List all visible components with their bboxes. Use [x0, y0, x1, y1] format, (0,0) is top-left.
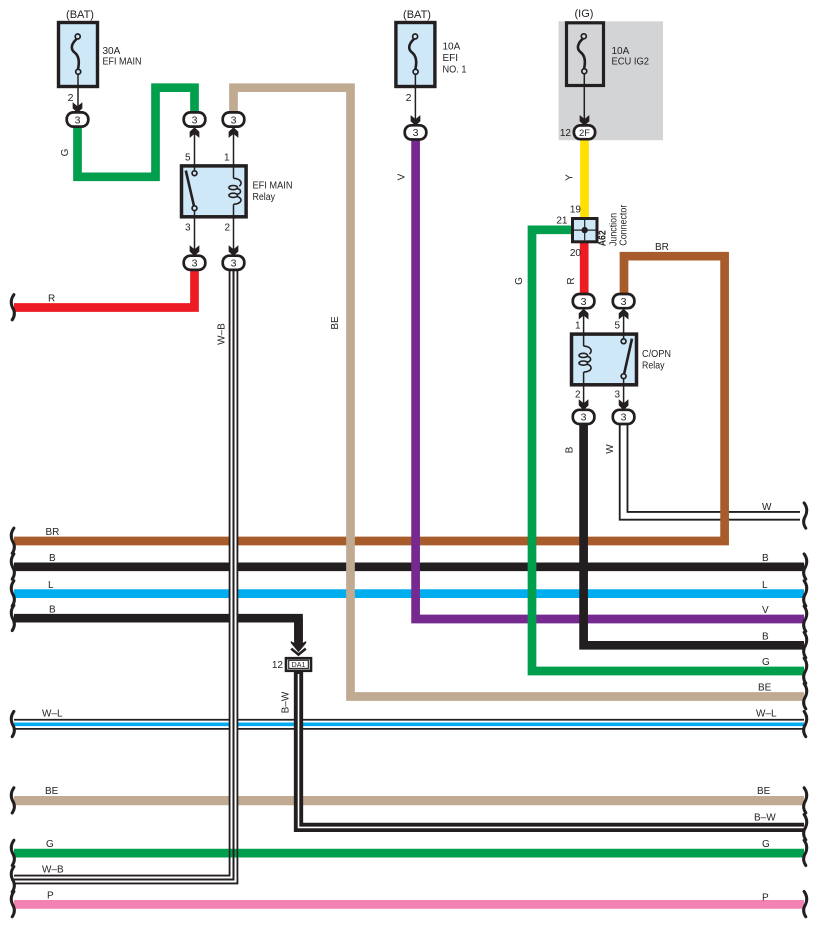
continuation squiggle left L [11, 581, 14, 606]
node oval 3 at C/OPN relay pin 2 [573, 410, 595, 424]
wire B-W (black with white stripe) from DA1 down then right to edge [299, 672, 805, 827]
continuation squiggle left W-B [11, 867, 14, 892]
svg-text:W–B: W–B [217, 323, 228, 345]
continuation squiggle right B1 [804, 554, 807, 579]
svg-text:(BAT): (BAT) [66, 9, 94, 21]
svg-text:V: V [397, 173, 408, 180]
C/OPN pin 5 lead and arrow up into oval [623, 315, 625, 334]
svg-text:P: P [762, 893, 769, 904]
C/OPN pin 1 lead and arrow up into oval [583, 315, 585, 334]
fuse 10A ECU IG2 (IG) [560, 8, 650, 139]
svg-text:1: 1 [224, 153, 230, 164]
svg-text:5: 5 [185, 153, 191, 164]
svg-text:B: B [49, 605, 56, 616]
svg-text:EFI: EFI [443, 53, 459, 64]
svg-text:ECU IG2: ECU IG2 [612, 57, 650, 68]
svg-text:3: 3 [621, 296, 627, 308]
svg-text:3: 3 [231, 258, 237, 270]
svg-text:3: 3 [614, 390, 620, 401]
svg-text:2: 2 [224, 223, 230, 234]
svg-text:3: 3 [231, 114, 237, 126]
wire R (red) from EFI MAIN relay pin 3 oval down then left to edge [14, 270, 195, 308]
wire W-B outline lines redrawn over G bus 2 [14, 270, 237, 884]
svg-text:P: P [47, 891, 54, 902]
svg-text:NO. 1: NO. 1 [443, 65, 467, 76]
continuation squiggle left R [11, 295, 14, 320]
svg-text:3: 3 [192, 114, 198, 126]
svg-text:G: G [762, 657, 770, 668]
continuation squiggle left BE2 [11, 788, 14, 813]
node oval 3 at EFI MAIN relay pin 2 [223, 256, 245, 270]
svg-text:BR: BR [655, 242, 669, 253]
pin 5 lead and arrow up into oval [194, 134, 196, 165]
svg-text:G: G [762, 839, 770, 850]
svg-text:R: R [566, 277, 577, 284]
svg-text:EFI MAIN: EFI MAIN [253, 181, 293, 192]
svg-text:30A: 30A [103, 46, 121, 57]
svg-text:G: G [46, 839, 54, 850]
continuation squiggle right B-W [804, 815, 807, 840]
svg-text:Relay: Relay [253, 192, 276, 203]
C/OPN pin 3 lead and arrow down into oval [623, 386, 625, 403]
svg-text:(IG): (IG) [575, 8, 594, 20]
wire P bus (pink, full width) [14, 900, 804, 909]
wire Y (yellow) from 2F oval to A62 pin 19 [580, 139, 589, 218]
continuation squiggle right L [804, 581, 807, 606]
svg-text:B–W: B–W [281, 691, 292, 713]
svg-text:3: 3 [621, 412, 627, 424]
wire B bus 1 (black, full width) [14, 562, 804, 571]
svg-text:BE: BE [45, 786, 59, 797]
svg-text:W–B: W–B [42, 865, 64, 876]
connector DA1 [272, 618, 311, 671]
svg-text:DA1: DA1 [292, 660, 306, 669]
svg-text:12: 12 [272, 660, 284, 671]
continuation squiggle left B1 [11, 554, 14, 579]
svg-text:B: B [762, 553, 769, 564]
svg-text:10A: 10A [612, 46, 630, 57]
svg-text:L: L [48, 580, 54, 591]
svg-text:V: V [762, 605, 769, 616]
wire BE (tan) from EFI MAIN relay pin 1 oval up, right, down, right to edge [234, 88, 805, 697]
svg-text:B: B [565, 446, 576, 453]
svg-text:B: B [762, 632, 769, 643]
svg-text:3: 3 [413, 127, 419, 139]
wire G (green) from 30A EFI MAIN fuse oval to EFI MAIN relay pin 5 oval [78, 88, 195, 177]
C/OPN relay U2 [572, 321, 672, 401]
svg-text:B–W: B–W [754, 813, 776, 824]
svg-text:BE: BE [757, 786, 771, 797]
continuation squiggle right W [804, 503, 807, 528]
continuation squiggle right W-L [804, 711, 807, 736]
arrow into oval 3 below fuse 30A [73, 102, 83, 113]
continuation squiggle right V [804, 606, 807, 631]
continuation squiggle right G [804, 658, 807, 683]
svg-text:3: 3 [185, 223, 191, 234]
svg-text:G: G [514, 277, 525, 285]
svg-text:B: B [49, 553, 56, 564]
continuation squiggle left P [11, 892, 14, 917]
svg-text:W–L: W–L [756, 709, 777, 720]
svg-text:1: 1 [575, 321, 581, 332]
wire L bus (blue, full width) [14, 589, 804, 598]
continuation squiggle left BR [11, 528, 14, 553]
continuation squiggle left W-L [11, 711, 14, 736]
wire G (green) from A62 pin 21 left, down, right to edge [532, 230, 804, 671]
pin 3 lead and arrow down into oval [194, 218, 196, 249]
svg-text:Y: Y [565, 174, 576, 181]
wire BE bus 2 (tan, full width) [14, 796, 804, 805]
svg-text:3: 3 [192, 258, 198, 270]
node oval 3 at C/OPN relay pin 5 [613, 294, 635, 308]
wire BR bus (brown) from left edge up to C/OPN relay pin 5 [14, 256, 725, 541]
svg-text:3: 3 [75, 114, 81, 126]
wire B bus 3 (black) from C/OPN relay pin 2 down then right to edge [584, 424, 804, 646]
svg-text:2F: 2F [579, 128, 590, 139]
continuation squiggle right G2 [804, 840, 807, 865]
wire W-L bus (white with blue stripe, full width) [14, 719, 804, 730]
svg-text:10A: 10A [443, 42, 461, 53]
node oval 3 below 30A fuse [67, 112, 89, 126]
fuse 10A EFI NO.1 (BAT) [396, 9, 467, 119]
node oval 3 at EFI MAIN relay pin 1 [223, 112, 245, 126]
junction connector A62 [556, 204, 629, 259]
svg-text:19: 19 [570, 205, 582, 216]
wire R (red) from A62 pin 20 to C/OPN relay pin 1 oval [580, 243, 589, 296]
svg-text:C/OPN: C/OPN [642, 349, 671, 360]
C/OPN pin 2 lead and arrow down into oval [583, 386, 585, 403]
continuation squiggle right B3 [804, 632, 807, 657]
svg-text:G: G [60, 148, 71, 156]
continuation squiggle right BE2 [804, 788, 807, 813]
svg-text:5: 5 [614, 321, 620, 332]
svg-text:W–L: W–L [42, 709, 63, 720]
svg-text:W: W [605, 444, 616, 454]
continuation squiggle right BE [804, 684, 807, 709]
svg-text:2: 2 [406, 92, 412, 104]
node oval 2F below ECU IG2 fuse [574, 125, 595, 139]
wire B bus 2 (black, left, turns down into DA1) [14, 618, 299, 641]
continuation squiggle left G2 [11, 840, 14, 865]
svg-text:Connector: Connector [619, 204, 630, 246]
node oval 3 at C/OPN relay pin 1 [573, 294, 595, 308]
svg-text:L: L [762, 580, 768, 591]
svg-text:EFI MAIN: EFI MAIN [103, 57, 142, 68]
svg-text:BE: BE [758, 683, 772, 694]
svg-text:Relay: Relay [642, 361, 665, 372]
svg-text:BR: BR [46, 527, 60, 538]
svg-text:BE: BE [330, 316, 341, 330]
arrow into oval 2F [580, 115, 590, 126]
wire W-B (white with black stripe) from EFI MAIN relay pin 2 oval down then left to edge [14, 268, 234, 880]
svg-text:3: 3 [581, 412, 587, 424]
svg-text:3: 3 [581, 296, 587, 308]
fuse 30A EFI MAIN (BAT) [59, 9, 142, 107]
svg-text:R: R [48, 294, 55, 305]
wire V (purple) from EFI NO.1 fuse oval down then right to edge [416, 139, 804, 619]
svg-text:20: 20 [570, 248, 582, 259]
svg-text:12: 12 [560, 128, 572, 139]
pin 1 lead and arrow up into oval [233, 134, 235, 165]
node oval 3 at EFI MAIN relay pin 3 [184, 256, 206, 270]
pin 2 lead and arrow down into oval [233, 218, 235, 249]
svg-text:2: 2 [575, 390, 581, 401]
node oval 3 at EFI MAIN relay pin 5 [184, 112, 206, 126]
svg-text:(BAT): (BAT) [403, 9, 431, 21]
svg-text:21: 21 [556, 216, 568, 227]
node oval 3 below 10A EFI NO.1 fuse [405, 125, 427, 139]
continuation squiggle left B2 [11, 605, 14, 630]
EFI MAIN relay U1 [182, 153, 293, 234]
continuation squiggle right P [804, 892, 807, 917]
node oval 3 at C/OPN relay pin 3 [613, 410, 635, 424]
wire W (white) from C/OPN relay pin 3 oval down then right to edge [624, 422, 800, 516]
svg-text:A62: A62 [596, 230, 608, 246]
svg-text:2: 2 [68, 92, 74, 104]
ECU-IG2 gray block [559, 21, 664, 140]
arrow into oval 3 below fuse 10A EFI NO.1 [411, 115, 421, 126]
wire G bus 2 (green, full width) [14, 849, 804, 858]
svg-text:W: W [762, 502, 772, 513]
